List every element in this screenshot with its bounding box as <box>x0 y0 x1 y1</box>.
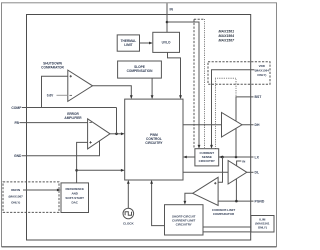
dashed sense line left <box>193 19 195 148</box>
text FB pin <box>14 121 19 125</box>
text thermal limit <box>121 39 137 47</box>
dashed VDD box <box>208 62 270 84</box>
svg-text:REFIN: REFIN <box>11 188 20 192</box>
svg-text:0.6V: 0.6V <box>47 94 54 98</box>
svg-text:IN: IN <box>242 159 245 163</box>
dotted sense line <box>204 19 206 148</box>
pin REFIN dashed box <box>3 182 59 213</box>
svg-text:GND: GND <box>14 154 22 158</box>
svg-text:LX: LX <box>255 155 260 159</box>
wire DL driver return to PGND <box>235 179 237 201</box>
node error amp output junction <box>115 133 118 136</box>
svg-text:IN: IN <box>170 8 174 12</box>
text IN pin label <box>170 8 174 12</box>
node LX junction 1 <box>221 156 224 159</box>
wire BST pin <box>236 97 254 121</box>
thermal limit block <box>117 35 139 51</box>
svg-text:PGND: PGND <box>255 200 265 204</box>
svg-text:CIRCUITRY: CIRCUITRY <box>145 141 163 145</box>
wire shutdown comparator + input from COMP <box>42 76 68 107</box>
wire DH output to pin <box>242 124 254 126</box>
wire short-circuit to ILIM 2 <box>203 231 251 233</box>
text shutdown comparator <box>41 61 64 69</box>
block UVLO <box>153 32 180 52</box>
svg-text:DAC: DAC <box>71 201 78 205</box>
node IN junction <box>166 21 169 24</box>
wire current-limit comparator output to short-circuit block <box>184 193 193 204</box>
wire short-circuit block to PWM <box>150 180 164 226</box>
svg-text:COMPARATOR: COMPARATOR <box>41 65 64 69</box>
IC outline box <box>27 15 251 241</box>
wire FB pin to error amp - input <box>20 122 88 124</box>
node LX junction 2 <box>235 156 238 159</box>
buffer DH driver <box>222 113 243 138</box>
wire PWM to DL driver <box>183 171 228 173</box>
wire current sense to PWM (arrow left) <box>183 156 195 159</box>
svg-text:(MAX1564: (MAX1564 <box>255 68 270 72</box>
wire IN to current-sense bundle <box>167 22 199 146</box>
svg-text:ONLY): ONLY) <box>257 73 266 77</box>
text current-limit comparator <box>212 208 235 216</box>
wire COMP riser to error amp output <box>116 108 118 134</box>
svg-text:COMPENSATION: COMPENSATION <box>127 69 153 73</box>
text IN label at DL driver <box>242 159 245 163</box>
node DAC output junction <box>75 169 78 172</box>
text ILIM pin <box>255 218 270 230</box>
wire COMP pin <box>22 107 117 109</box>
dotted wire to BST <box>216 78 237 148</box>
svg-text:CIRCUITRY: CIRCUITRY <box>199 159 215 163</box>
text VDD pin <box>255 64 270 77</box>
wire error amp + input to DAC <box>77 142 88 183</box>
text GND pin <box>14 154 22 158</box>
wire thermal limit to UVLO (arrow) <box>140 42 153 45</box>
buffer DL driver <box>228 161 247 185</box>
wire LX from current sense to pin <box>219 156 254 159</box>
wire 0.6V ref to - input <box>57 94 68 96</box>
text + - shutdown comparator <box>70 75 73 95</box>
svg-text:ONLY): ONLY) <box>11 201 20 205</box>
text COMP pin <box>11 106 22 110</box>
comparator shutdown <box>68 70 93 101</box>
svg-text:FB: FB <box>14 121 19 125</box>
text LX pin <box>255 155 260 159</box>
text PGND pin <box>255 200 265 204</box>
text DH pin <box>255 123 260 127</box>
wire PWM to DH driver <box>183 124 222 126</box>
wire DH driver return to LX <box>235 128 237 157</box>
svg-text:VDD: VDD <box>259 64 266 68</box>
text short-circuit current-limit circuitry <box>172 215 196 227</box>
wire short-circuit to ILIM 1 <box>203 226 251 228</box>
svg-text:AMPLIFIER: AMPLIFIER <box>64 116 82 120</box>
wire DAC node to PWM (arrow) <box>77 169 125 172</box>
svg-text:REFERENCE: REFERENCE <box>65 187 84 191</box>
wire GND pin <box>22 141 100 156</box>
pin ILIM box <box>251 216 274 233</box>
svg-text:SOFT-START: SOFT-START <box>65 196 84 200</box>
text error amplifier <box>64 112 82 120</box>
node PGND junction <box>235 200 238 203</box>
wire IN stub to DL driver <box>237 161 242 166</box>
svg-text:UVLO: UVLO <box>162 41 171 45</box>
text DL pin <box>255 171 260 175</box>
dashed sense top segment <box>194 18 205 20</box>
text part numbers <box>219 30 236 43</box>
svg-text:BST: BST <box>255 95 263 99</box>
wire REFIN to DAC (arrow) <box>23 189 61 192</box>
svg-text:CLOCK: CLOCK <box>123 222 134 226</box>
svg-text:DL: DL <box>255 171 260 175</box>
text 0.6V reference <box>47 94 54 98</box>
svg-text:MAX1567: MAX1567 <box>219 39 236 43</box>
svg-text:COMPARATOR: COMPARATOR <box>213 212 235 216</box>
wire PGND pin <box>218 200 253 202</box>
svg-text:MAX1561: MAX1561 <box>219 30 235 34</box>
block PWM control circuitry <box>125 99 183 180</box>
wire DL output to pin <box>247 171 254 173</box>
text current sense circuitry <box>199 151 215 163</box>
block reference and soft-start DAC <box>61 183 89 213</box>
svg-text:DH: DH <box>255 123 260 127</box>
wire VDD sense to current sense box <box>210 70 254 149</box>
text REFIN pin <box>9 188 24 205</box>
block short-circuit current-limit circuitry <box>165 205 204 235</box>
svg-text:CIRCUITRY: CIRCUITRY <box>176 223 192 227</box>
svg-text:COMP: COMP <box>11 106 22 110</box>
wire error amp output <box>110 132 125 135</box>
op-amp error amplifier <box>88 119 110 149</box>
wire current-limit + input from LX <box>218 157 222 182</box>
text reference and soft-start DAC <box>65 187 84 205</box>
svg-text:MAX1564: MAX1564 <box>219 34 235 38</box>
svg-text:ONLY): ONLY) <box>258 226 267 230</box>
svg-text:LIMIT: LIMIT <box>124 43 132 47</box>
svg-text:AND: AND <box>71 192 78 196</box>
wire slope comp to PWM <box>151 78 154 99</box>
wire UVLO output to PWM <box>168 52 182 99</box>
wire shutdown comparator output to PWM <box>93 86 133 99</box>
text CLOCK <box>123 222 134 226</box>
svg-text:(MAX1567: (MAX1567 <box>9 194 24 198</box>
block slope compensation <box>118 61 162 78</box>
block current sense circuitry <box>195 149 219 166</box>
pin IN stub <box>166 3 168 32</box>
clock oscillator symbol <box>123 208 134 219</box>
text slope compensation <box>127 65 153 73</box>
text UVLO <box>162 41 171 45</box>
text + current-limit comparator <box>214 182 217 185</box>
text - + error amplifier <box>89 123 92 144</box>
comparator current-limit <box>193 177 218 205</box>
text PWM control circuitry <box>145 133 163 145</box>
text BST pin <box>255 95 263 99</box>
arrowhead into current sense box (IN sense) <box>198 145 201 149</box>
wire clock to PWM <box>127 180 130 208</box>
